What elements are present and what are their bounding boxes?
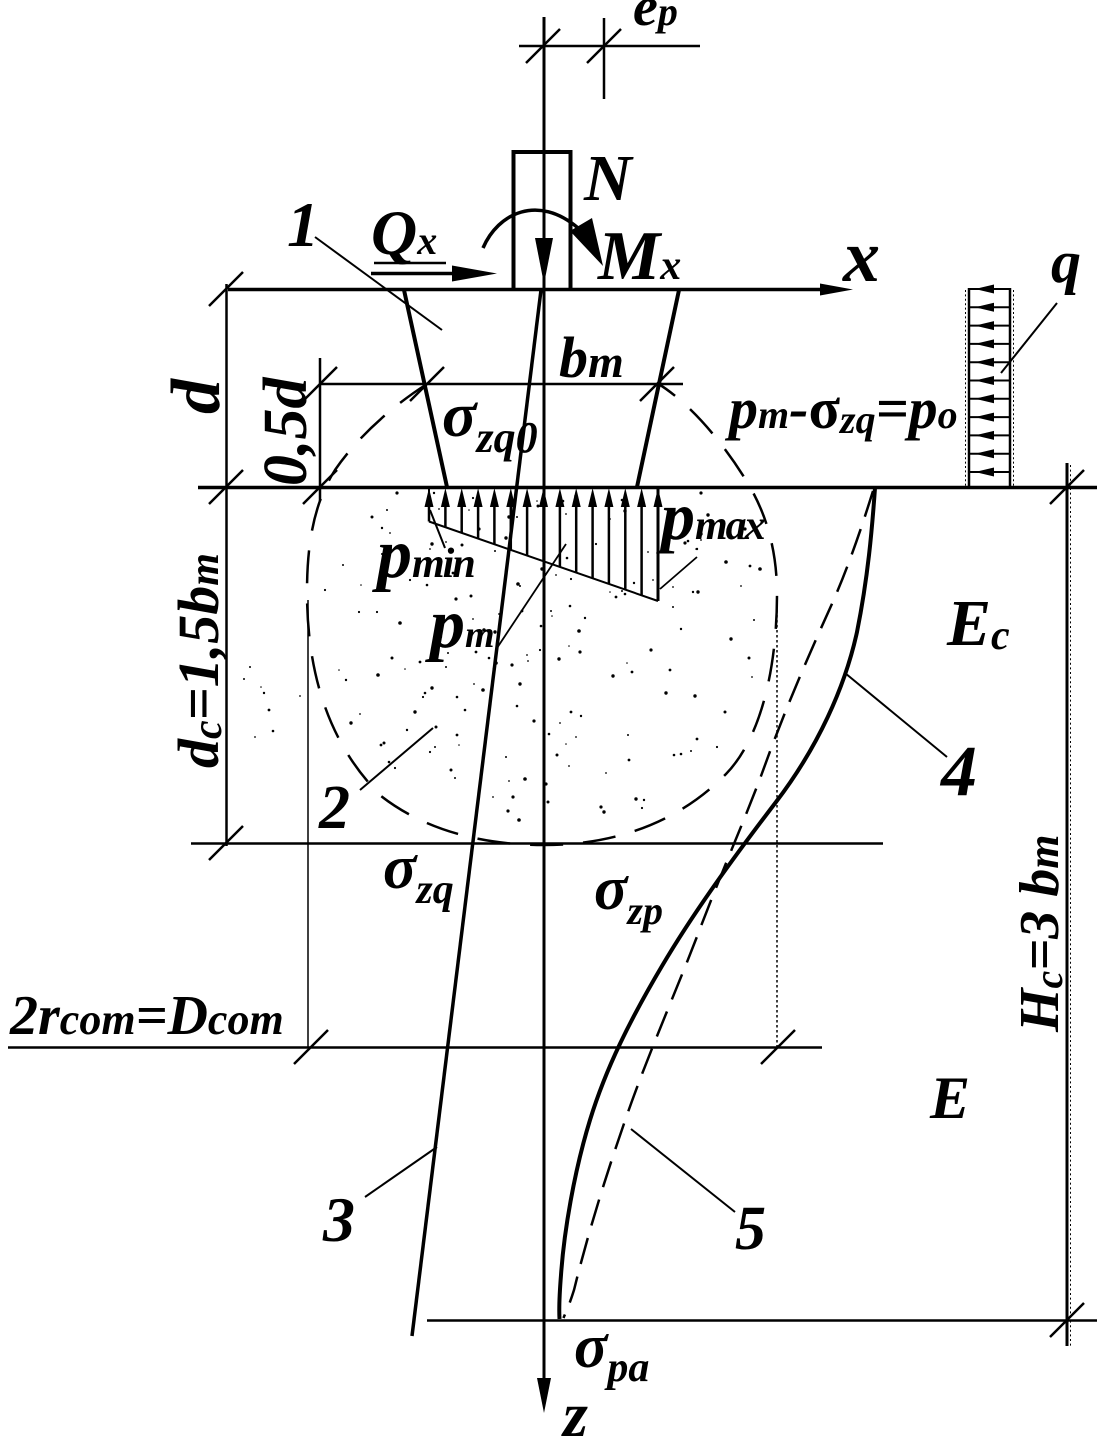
svg-text:pm: pm bbox=[425, 586, 495, 663]
svg-text:Mx: Mx bbox=[597, 218, 681, 295]
svg-text:dc=1,5bm: dc=1,5bm bbox=[166, 553, 231, 768]
svg-text:2: 2 bbox=[318, 774, 350, 842]
compacted zone bottom line bbox=[191, 842, 883, 845]
sigma_zp curve with compaction element 4 (solid) bbox=[559, 488, 875, 1319]
z axis arrowhead bbox=[537, 1378, 551, 1413]
force N arrow bbox=[535, 238, 553, 284]
footing base level line bbox=[198, 486, 1097, 490]
svg-text:d: d bbox=[158, 378, 235, 414]
svg-text:Ec: Ec bbox=[946, 587, 1010, 660]
svg-text:4: 4 bbox=[939, 731, 977, 811]
svg-text:ep: ep bbox=[633, 0, 678, 38]
svg-text:pmax: pmax bbox=[656, 478, 765, 554]
column bbox=[514, 152, 571, 290]
dimension 0,5d line bbox=[319, 358, 322, 501]
svg-text:0,5d: 0,5d bbox=[252, 377, 320, 487]
compacted zone boundary element 2 (dashed) bbox=[307, 383, 777, 845]
lower boundary line of compressible zone bbox=[427, 1319, 1097, 1322]
x axis bbox=[228, 284, 853, 296]
svg-text:Qx: Qx bbox=[371, 197, 437, 268]
svg-text:σzp: σzp bbox=[594, 855, 663, 933]
svg-text:E: E bbox=[929, 1065, 970, 1131]
contact pressure diagram under base bbox=[425, 487, 663, 601]
svg-text:1: 1 bbox=[287, 189, 319, 260]
dimension ep bbox=[519, 18, 700, 99]
speckle texture of compacted soil bbox=[243, 491, 762, 821]
svg-text:2rcom=Dcom: 2rcom=Dcom bbox=[9, 985, 284, 1047]
svg-text:q: q bbox=[1051, 229, 1081, 295]
Dcom right edge line (dotted) bbox=[776, 600, 778, 1047]
moment Mx arc bbox=[483, 210, 603, 266]
sigma_zp curve without compaction element 5 (dashed) bbox=[564, 491, 874, 1318]
svg-text:z: z bbox=[561, 1379, 588, 1437]
svg-text:σpa: σpa bbox=[574, 1313, 649, 1391]
svg-text:σzq: σzq bbox=[383, 834, 454, 913]
wire centerline z-axis bbox=[543, 17, 546, 1381]
svg-text:N: N bbox=[583, 142, 634, 215]
svg-text:Hc=3 bm: Hc=3 bm bbox=[1009, 835, 1071, 1033]
svg-text:x: x bbox=[842, 216, 880, 298]
dimension Hc line bbox=[1050, 463, 1084, 1346]
Dcom left edge line bbox=[307, 600, 309, 1047]
svg-text:pm-σzq=po: pm-σzq=po bbox=[724, 376, 958, 442]
dimension 2rcom=Dcom bbox=[8, 1030, 822, 1064]
force Qx arrow bbox=[371, 263, 497, 282]
sigma_zq line element 3 bbox=[412, 290, 541, 1336]
svg-text:3: 3 bbox=[322, 1184, 355, 1255]
dimension d line bbox=[209, 272, 243, 860]
dimension bm bbox=[303, 367, 683, 401]
surcharge load q bbox=[966, 285, 1014, 489]
svg-text:pmin: pmin bbox=[372, 516, 474, 593]
svg-text:5: 5 bbox=[735, 1195, 766, 1263]
foundation pit walls element 1 bbox=[404, 290, 679, 487]
svg-text:bm: bm bbox=[559, 325, 624, 390]
